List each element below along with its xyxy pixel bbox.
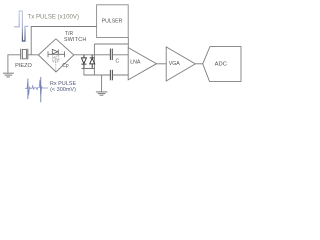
parasitic capacitor Cp (dashed) [52, 58, 59, 72]
wire VGA to ADC [195, 63, 202, 65]
wire bottom cap to LNA [112, 74, 128, 76]
ground [96, 92, 107, 95]
wire ground stub [101, 75, 103, 92]
limiter diode D4 [90, 55, 95, 69]
Tx pulse waveform icon [14, 11, 28, 41]
T/R switch diode bridge outline [38, 39, 73, 72]
svg-text:PULSER: PULSER [102, 19, 123, 25]
bridge diode D2 (dashed) [53, 55, 59, 60]
svg-text:VGA: VGA [169, 61, 180, 67]
svg-text:ADC: ADC [215, 61, 227, 67]
piezo transducer X1 [21, 49, 28, 60]
wire left edge to piezo [8, 55, 21, 73]
wire piezo to bridge [28, 54, 39, 56]
bridge internal rail [48, 51, 65, 57]
svg-text:C: C [116, 58, 120, 64]
wire [94, 43, 128, 45]
ground [3, 73, 14, 77]
node A vertical wire [93, 44, 95, 75]
wire LNA to VGA [157, 63, 167, 65]
wire limiter bottom bar [82, 67, 95, 69]
op-amp LNA [128, 48, 156, 80]
svg-text:LNA: LNA [130, 59, 141, 65]
bridge diode D1 [52, 49, 58, 54]
Rx pulse waveform icon [25, 77, 48, 102]
wire cap to LNA input [112, 54, 128, 56]
wire limiter to bottom rail [84, 68, 110, 75]
coupling capacitor C (series, top) [110, 49, 112, 60]
wire pulser output to piezo node [31, 27, 96, 55]
pulser box U1 [97, 5, 129, 38]
svg-text:SWITCH: SWITCH [64, 37, 86, 43]
svg-text:Cp: Cp [62, 63, 69, 69]
op-amp VGA [166, 47, 195, 81]
wire bridge to limiter [74, 54, 111, 56]
wire top rail pulser to node A [127, 38, 129, 48]
coupling capacitor (bottom) [110, 70, 112, 81]
limiter diode D3 [81, 55, 86, 69]
svg-text:Tx PULSE (x100V): Tx PULSE (x100V) [28, 13, 79, 20]
svg-text:PIEZO: PIEZO [15, 63, 32, 69]
ADC block [203, 47, 241, 82]
svg-text:(< 300mV): (< 300mV) [50, 87, 76, 93]
